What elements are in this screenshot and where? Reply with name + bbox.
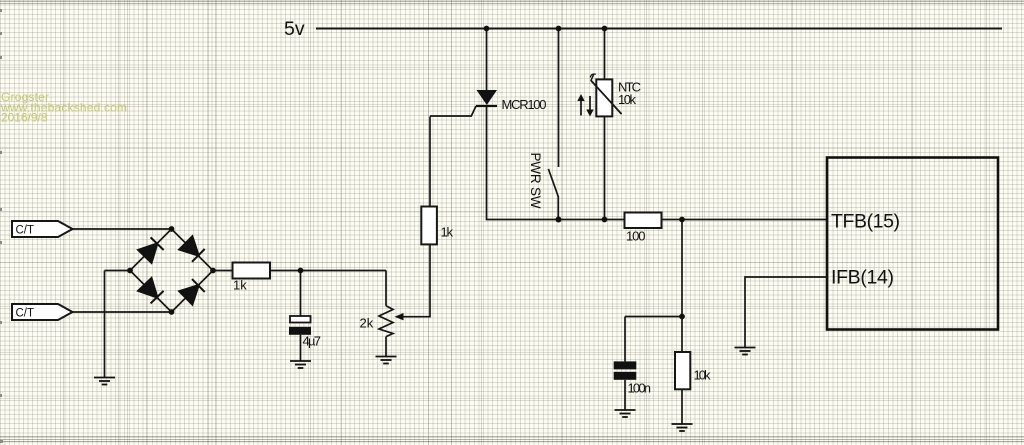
svg-text:4µ7: 4µ7	[303, 334, 322, 349]
svg-text:100: 100	[626, 229, 646, 244]
svg-text:10k: 10k	[618, 92, 637, 107]
svg-text:10k: 10k	[694, 368, 712, 383]
svg-text:IFB(14): IFB(14)	[831, 267, 894, 289]
svg-text:5v: 5v	[284, 18, 305, 40]
svg-text:PWR SW: PWR SW	[528, 153, 543, 209]
svg-text:100n: 100n	[628, 381, 652, 396]
svg-text:1k: 1k	[441, 225, 454, 240]
svg-text:TFB(15): TFB(15)	[831, 211, 900, 233]
svg-text:C/T: C/T	[16, 308, 35, 320]
svg-text:2016/9/8: 2016/9/8	[1, 110, 48, 124]
svg-text:1k: 1k	[233, 278, 247, 293]
svg-text:C/T: C/T	[16, 225, 35, 237]
svg-text:MCR100: MCR100	[502, 97, 547, 112]
svg-text:2k: 2k	[360, 316, 374, 331]
